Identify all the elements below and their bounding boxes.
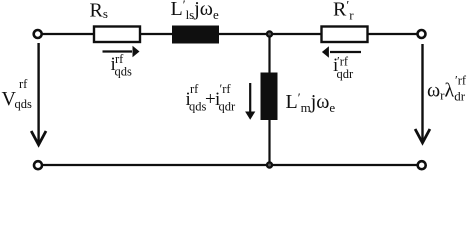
svg-text:qds: qds <box>115 65 133 79</box>
svg-text:L′lsjωe: L′lsjωe <box>171 0 219 22</box>
label i'qdr rf <box>333 55 354 82</box>
node junction top <box>267 31 272 36</box>
wire top: L'ls to R'r through node <box>218 33 322 35</box>
label omega r lambda dr <box>427 74 467 104</box>
inductor L'ls body <box>172 26 219 44</box>
label iqds rf <box>111 52 133 79</box>
svg-text:rf: rf <box>19 77 28 91</box>
wire top right: R'r to terminal <box>367 33 419 35</box>
svg-text:qds: qds <box>189 100 207 114</box>
svg-text:qds: qds <box>15 97 33 111</box>
terminal bottom-right <box>418 161 426 169</box>
node junction bottom <box>267 162 272 167</box>
svg-text:rf: rf <box>190 82 199 96</box>
svg-text:L′mjωe: L′mjωe <box>286 90 336 115</box>
resistor Rs body <box>94 27 140 43</box>
wire top: Rs to L'ls <box>139 33 173 35</box>
arrow flux lambda (downward, right side) <box>415 44 430 143</box>
svg-text:qdr: qdr <box>337 67 355 81</box>
inductor L'm body <box>261 73 278 121</box>
label iqds rf + i'qdr rf (node current) <box>186 82 237 114</box>
terminal bottom-left <box>34 161 42 169</box>
terminal top-right <box>418 30 426 38</box>
arrow voltage Vqds (downward, left side) <box>31 43 46 145</box>
terminal top-left <box>34 30 42 38</box>
arrow current iqds (rightward under Rs) <box>103 46 140 58</box>
label Vqds rf <box>2 77 33 111</box>
svg-text:qdr: qdr <box>219 100 237 114</box>
svg-text:′rf: ′rf <box>220 82 232 96</box>
svg-text:′rf: ′rf <box>455 74 467 88</box>
resistor R'r body <box>322 27 368 43</box>
wire bottom <box>41 164 419 166</box>
wire middle branch vertical <box>268 34 270 165</box>
inductor L'ls label <box>171 0 219 22</box>
arrow current i'qdr (leftward under R'r) <box>322 46 361 58</box>
wire top left: terminal to Rs <box>41 33 94 35</box>
arrow magnetizing current (downward next to L'm) <box>245 83 255 120</box>
